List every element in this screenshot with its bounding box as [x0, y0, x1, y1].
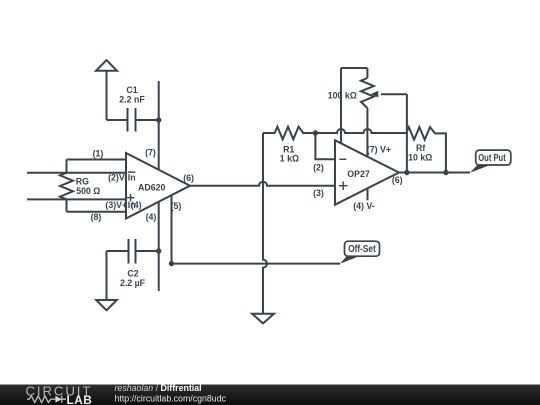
svg-text:Off-Set: Off-Set	[348, 243, 376, 255]
ground middle	[252, 314, 274, 324]
svg-text:2.2 nF: 2.2 nF	[119, 95, 145, 105]
junction dots	[156, 117, 449, 266]
svg-text:(4): (4)	[131, 200, 142, 210]
wire pin2 input	[27, 172, 126, 174]
wire AD620 output to OP27 plus with hop	[190, 182, 335, 186]
svg-text:(7): (7)	[145, 148, 156, 158]
resistor Rf	[406, 127, 446, 172]
svg-text:LAB: LAB	[67, 393, 93, 405]
power supply V+ arrow	[106, 71, 108, 120]
wire	[107, 119, 128, 121]
wire pin1	[67, 159, 127, 161]
capacitor C1	[128, 108, 136, 132]
node C1-pin7	[156, 117, 161, 122]
svg-text:reshaolan / Diffrential: reshaolan / Diffrential	[115, 383, 202, 393]
wire pin4 AD620 down	[158, 202, 160, 291]
wire Off-Set	[172, 263, 341, 265]
wire pin5 AD620	[171, 195, 173, 263]
svg-text:C1: C1	[126, 85, 137, 95]
minus marker OP27	[339, 158, 346, 160]
svg-text:1 kΩ: 1 kΩ	[280, 153, 299, 163]
plus marker OP27	[339, 181, 348, 190]
resistor R1	[263, 127, 315, 140]
potentiometer bottom lead to OP27 pin7	[366, 108, 368, 157]
svg-text:500 Ω: 500 Ω	[76, 186, 100, 196]
potentiometer left wire to balance pin	[340, 68, 342, 143]
wire OP27 output	[399, 172, 470, 174]
wire C2 left	[107, 250, 129, 252]
input markers	[127, 159, 348, 201]
svg-text:(2): (2)	[313, 163, 324, 173]
svg-text:Out Put: Out Put	[478, 152, 506, 164]
svg-text:OP27: OP27	[347, 169, 370, 179]
ground left	[96, 300, 117, 310]
wire pin3 input	[27, 198, 126, 200]
logo circuit glyph	[27, 396, 66, 403]
node R1-Rf-minus	[313, 130, 318, 135]
potentiometer wiper arrowhead	[371, 91, 379, 98]
resistor RG	[60, 160, 73, 212]
potentiometer wiper wire	[381, 94, 407, 172]
wire node to OP27 minus	[315, 133, 335, 159]
svg-text:http://circuitlab.com/cgn8udc: http://circuitlab.com/cgn8udc	[115, 394, 227, 404]
wire OP27 pin4 down	[367, 188, 369, 200]
flag Off-Set	[340, 241, 380, 264]
wire R1 to ground with hop	[263, 133, 267, 314]
potentiometer loop wire	[341, 68, 367, 78]
svg-text:AD620: AD620	[138, 182, 165, 192]
node wiper-output	[404, 170, 409, 175]
svg-text:(4): (4)	[146, 212, 157, 222]
svg-text:(6): (6)	[183, 173, 194, 183]
svg-text:(4) V-: (4) V-	[353, 201, 375, 211]
svg-text:2.2 µF: 2.2 µF	[120, 278, 146, 288]
svg-text:100 kΩ: 100 kΩ	[328, 90, 357, 100]
svg-text:In: In	[128, 173, 136, 183]
svg-text:(8): (8)	[91, 212, 102, 222]
op-amp U2 OP27	[335, 140, 399, 204]
node Rf-output	[443, 170, 448, 175]
wire pin7 AD620 up	[158, 81, 160, 170]
plus marker AD620	[127, 194, 134, 201]
node C2-pin4	[156, 248, 161, 253]
op-amp U1 AD620	[126, 153, 190, 219]
svg-text:(2)V-: (2)V-	[108, 173, 127, 183]
svg-text:(3): (3)	[313, 188, 324, 198]
svg-text:(7) V+: (7) V+	[367, 145, 391, 155]
svg-text:(6): (6)	[392, 175, 403, 185]
svg-text:10 kΩ: 10 kΩ	[408, 153, 432, 163]
flag Out Put	[470, 150, 511, 173]
svg-text:(5): (5)	[171, 201, 182, 211]
wire R1 to Rf with hops	[315, 129, 406, 133]
svg-text:(3)V+: (3)V+	[105, 200, 127, 210]
wire to ground left	[106, 251, 108, 300]
svg-text:RG: RG	[76, 176, 89, 186]
svg-text:(1): (1)	[93, 149, 104, 159]
node pin5 offset	[169, 261, 174, 266]
capacitor C2	[129, 239, 136, 264]
overline In pin2	[128, 171, 136, 173]
wire pin8	[67, 211, 127, 213]
potentiometer body 100k	[361, 78, 374, 108]
wire	[136, 119, 159, 121]
wire C2 right	[136, 250, 159, 252]
